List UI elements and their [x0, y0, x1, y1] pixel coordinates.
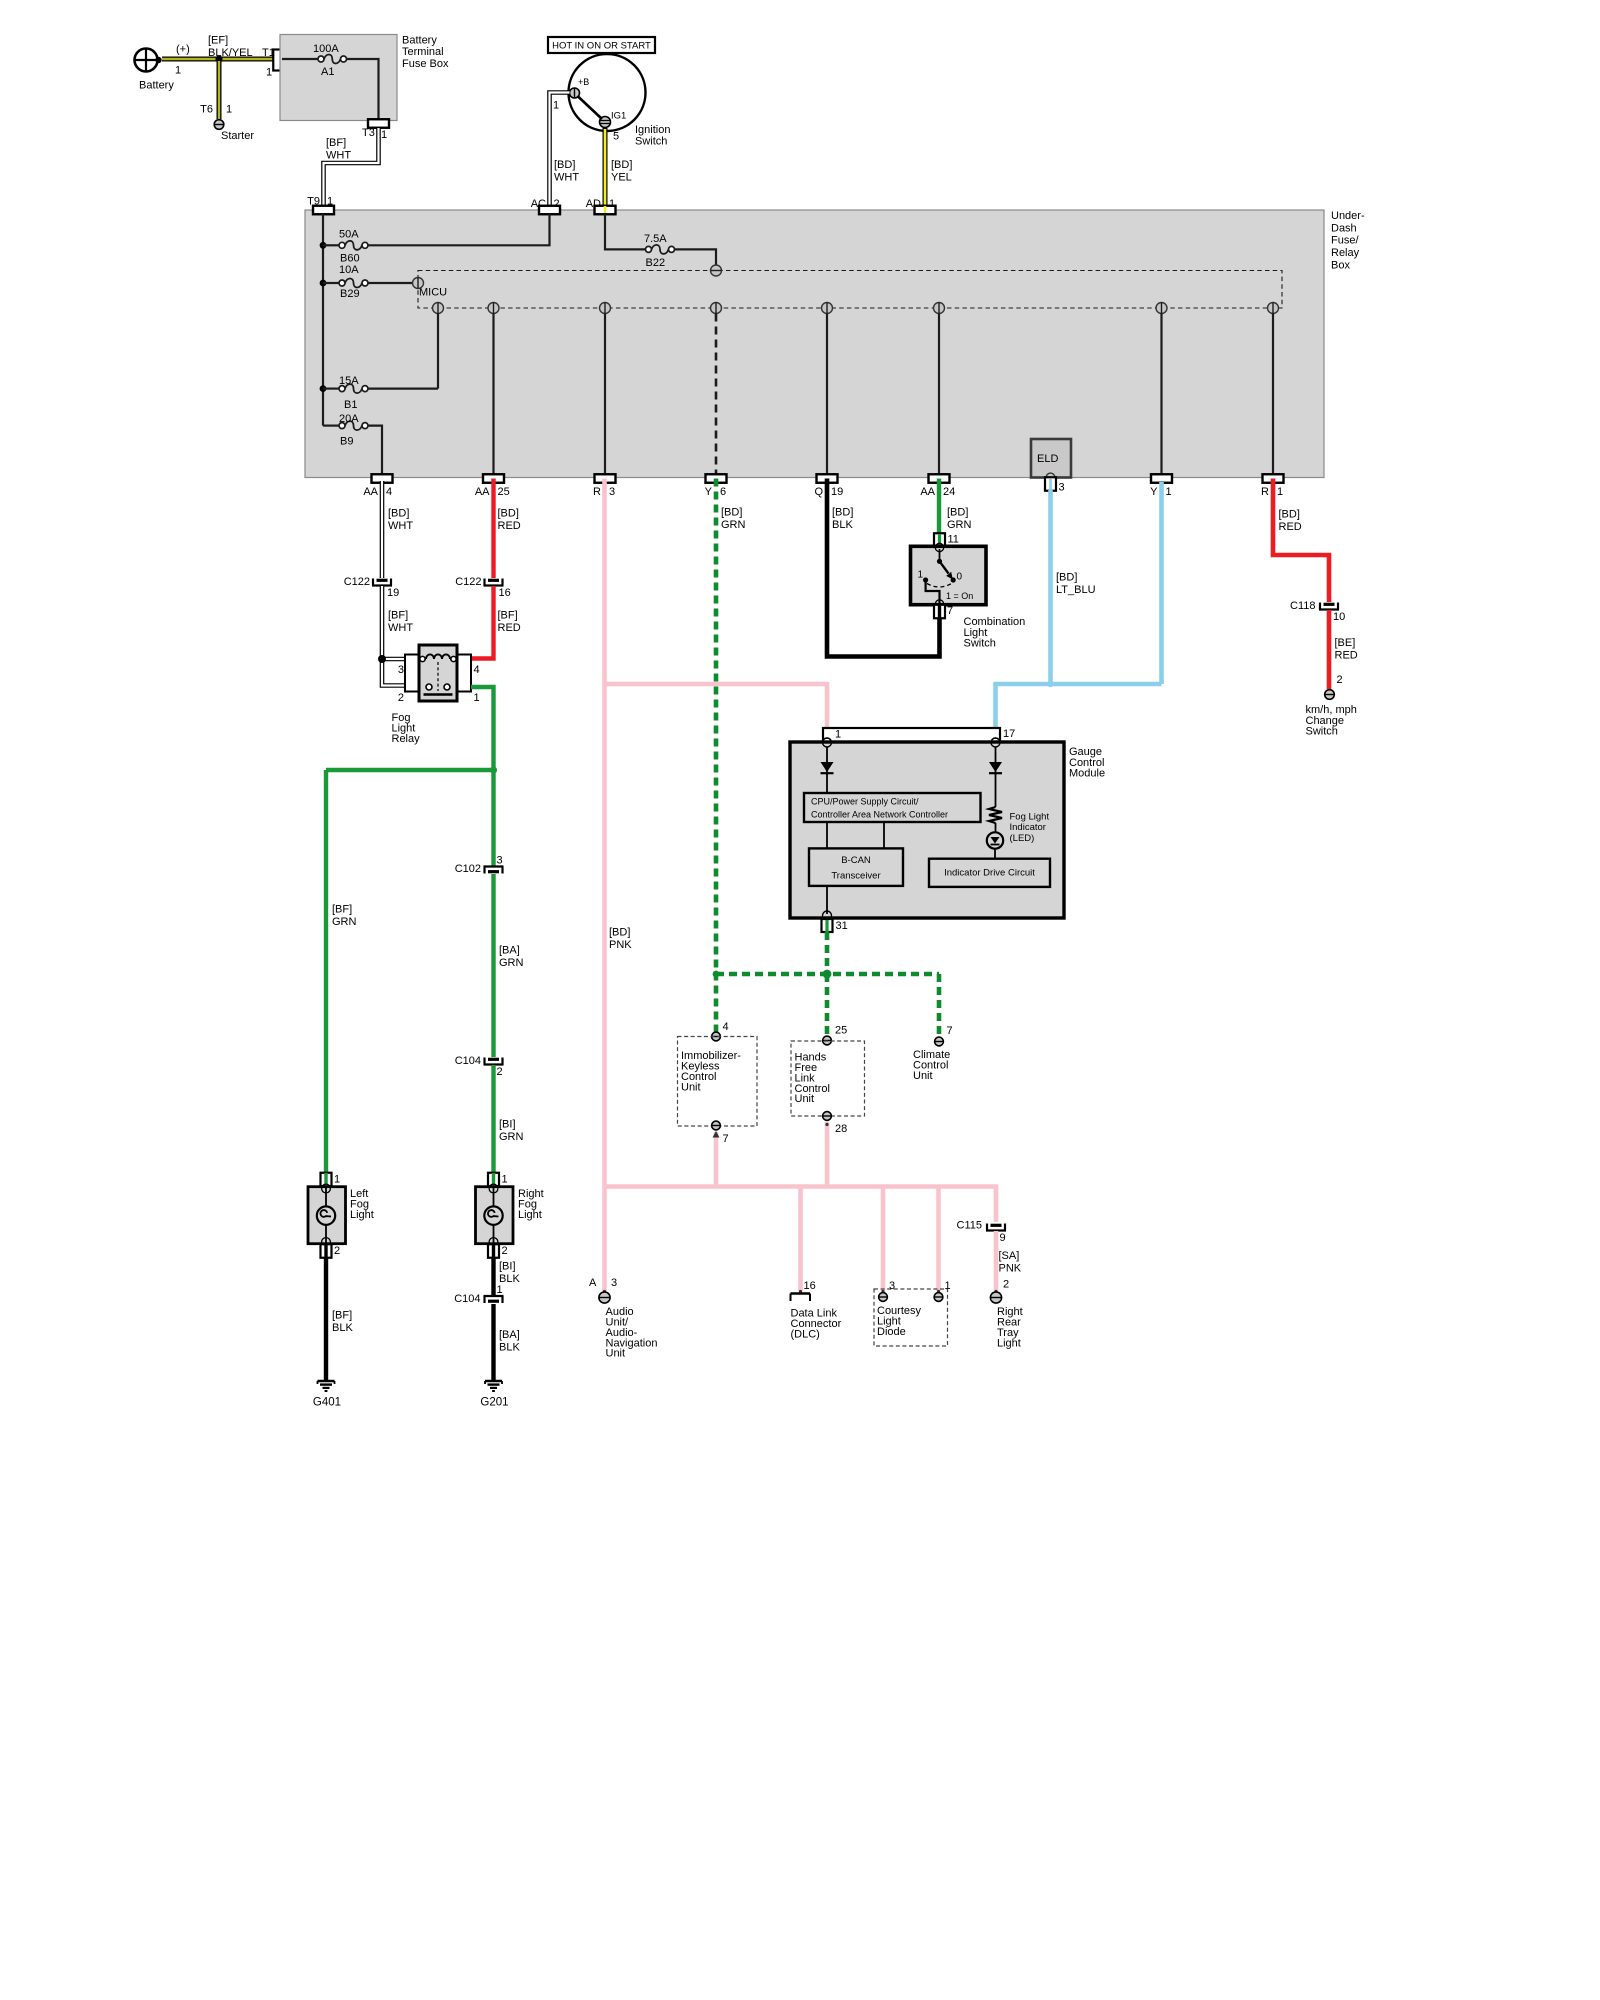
connector T9 pin 1: [313, 206, 334, 215]
label (+) node: [176, 44, 190, 56]
svg-text:1: 1: [609, 198, 615, 210]
label [BI] BLK: [499, 1261, 520, 1286]
label [BF] WHT: [326, 137, 351, 162]
right fog light connector pin 1: [488, 1173, 508, 1187]
svg-text:Relay: Relay: [392, 733, 421, 745]
left fog light connector pin 2: [321, 1244, 341, 1258]
label Right Fog Light: [518, 1188, 544, 1221]
svg-text:2: 2: [1003, 1279, 1009, 1291]
immobilizer pin 4 terminal: [712, 1021, 729, 1041]
connector C122 pin 16: [455, 576, 511, 599]
svg-text:Light: Light: [997, 1337, 1021, 1349]
svg-text:16: 16: [499, 587, 511, 599]
label [BD] LT_BLU: [1056, 572, 1096, 597]
svg-text:Y: Y: [705, 486, 713, 498]
svg-text:1: 1: [266, 67, 272, 79]
label B1: [344, 399, 357, 411]
relay pin number 2: [398, 692, 404, 704]
label T6 1: [200, 104, 232, 116]
ground G401: [313, 1381, 341, 1408]
label [BI] GRN: [499, 1119, 524, 1144]
svg-text:(DLC): (DLC): [791, 1328, 820, 1340]
svg-text:0: 0: [957, 571, 963, 582]
switch pin circle bottom: [935, 600, 943, 608]
svg-text:Unit: Unit: [681, 1081, 701, 1093]
ignition switch circle: [569, 54, 646, 131]
svg-text:15A: 15A: [339, 375, 359, 387]
connector AD pin 1: [586, 198, 616, 214]
gauge control module connector strip: [823, 728, 1000, 742]
svg-text:Unit: Unit: [606, 1348, 626, 1360]
svg-text:GRN: GRN: [721, 519, 746, 531]
svg-text:10: 10: [1333, 611, 1345, 623]
wire Q19 drop: [826, 314, 828, 475]
connector R pin 1: [1261, 474, 1283, 498]
svg-text:[BD]: [BD]: [609, 927, 630, 939]
svg-text:+B: +B: [578, 77, 589, 87]
wire AA25 drop: [492, 314, 494, 475]
svg-text:B9: B9: [340, 436, 353, 448]
label Data Link Connector (DLC): [791, 1308, 842, 1341]
label [BD] GRN: [721, 507, 746, 532]
svg-text:C102: C102: [455, 863, 481, 875]
svg-text:Battery: Battery: [402, 35, 437, 47]
switch internal: pole wire: [939, 549, 941, 561]
svg-text:WHT: WHT: [388, 520, 413, 532]
junction 10A: [320, 280, 327, 287]
svg-text:1 = On: 1 = On: [946, 591, 973, 601]
switch contact 0: [951, 571, 963, 582]
svg-text:(LED): (LED): [1010, 833, 1035, 844]
fog light indicator resistor: [989, 807, 1002, 823]
right fog light internal wire: [493, 1186, 495, 1244]
svg-text:(+): (+): [176, 44, 190, 56]
wire [BD] PNK R3 down: [602, 479, 607, 1187]
ignition switch terminal IG1: [600, 110, 627, 127]
svg-text:50A: 50A: [339, 229, 359, 241]
wire diode to CPU box: [826, 774, 828, 793]
under-dash fuse/relay box: [305, 210, 1324, 478]
wire [BD] WHT +B to AC2: [550, 93, 570, 207]
svg-text:Switch: Switch: [1306, 725, 1338, 737]
svg-text:19: 19: [831, 486, 843, 498]
junction 15A: [320, 385, 327, 392]
svg-text:T1: T1: [262, 47, 275, 59]
wire [BF] BLK to ground: [324, 1257, 328, 1381]
right fog light connector pin 2: [488, 1244, 508, 1258]
starter terminal: [214, 120, 224, 130]
wire pink to audio unit: [602, 1187, 607, 1292]
wire Y1 drop: [1160, 314, 1162, 475]
svg-text:WHT: WHT: [554, 172, 579, 184]
svg-text:Dash: Dash: [1331, 222, 1357, 234]
svg-text:[BF]: [BF]: [332, 904, 352, 916]
fuse B60 50A: [323, 214, 550, 250]
svg-text:R: R: [1261, 486, 1269, 498]
svg-text:[BD]: [BD]: [1056, 572, 1077, 584]
connector AA pin 24: [920, 474, 955, 498]
gauge module connector pin 31: [822, 919, 848, 932]
label Immobilizer-Keyless Control Unit: [681, 1050, 741, 1093]
connector C104 pin 1: [454, 1284, 503, 1305]
svg-text:Relay: Relay: [1331, 247, 1360, 259]
connector Y pin 1: [1150, 474, 1172, 498]
pink branch to gauge module pin 1: [605, 684, 828, 729]
svg-text:2: 2: [334, 1245, 340, 1257]
label [BA] BLK: [499, 1329, 520, 1354]
svg-text:[BD]: [BD]: [1279, 509, 1300, 521]
relay coil: [419, 654, 457, 659]
svg-text:AA: AA: [920, 486, 935, 498]
label Starter: [221, 130, 254, 142]
wire [BD] GRN AA24 to switch pin 11: [937, 479, 941, 547]
svg-text:1: 1: [918, 569, 924, 580]
svg-text:T6: T6: [200, 104, 213, 116]
svg-text:C122: C122: [455, 576, 481, 588]
label Right Rear Tray Light: [997, 1306, 1023, 1349]
wire resistor to LED: [995, 823, 997, 833]
svg-text:AC: AC: [531, 198, 546, 210]
label MICU: [419, 287, 447, 299]
wire [BF] GRN relay pin1 to fog lights: [326, 687, 494, 1173]
label T9 1: [307, 196, 333, 208]
svg-text:1: 1: [226, 104, 232, 116]
label B29: [340, 288, 360, 300]
wire LED to indicator drive circuit: [994, 849, 996, 859]
switch throw arc (dashed): [927, 584, 952, 588]
relay contact bar: [424, 693, 453, 696]
wire [BD] GRN Y6 dashed down: [714, 479, 719, 1033]
wire [EF] BLK/YEL battery to T1: [162, 57, 276, 62]
label [BF] WHT: [388, 610, 413, 635]
svg-text:11: 11: [948, 534, 959, 546]
svg-text:B60: B60: [340, 253, 360, 265]
svg-text:GRN: GRN: [499, 1131, 524, 1143]
MICU bus pin x=493.5: [488, 303, 499, 314]
label 100A: [313, 43, 339, 55]
svg-text:Switch: Switch: [635, 136, 667, 148]
svg-text:3: 3: [609, 486, 615, 498]
HOT IN ON OR START tag: [548, 37, 655, 53]
svg-text:1: 1: [474, 692, 480, 704]
wire [BF] RED C122 to relay pin 4: [471, 586, 494, 659]
label 50A: [339, 229, 359, 241]
km/h mph change switch terminal 2: [1325, 674, 1343, 699]
left fog light internal wire: [325, 1186, 327, 1244]
combination light switch connector pin 7: [934, 605, 953, 619]
svg-text:C115: C115: [957, 1220, 982, 1232]
wire [BD] LT_BLU ELD3 down: [1048, 490, 1053, 684]
label 20A: [339, 413, 359, 425]
fuse B1 15A: [323, 384, 438, 393]
svg-text:Indicator: Indicator: [1010, 822, 1046, 833]
gauge module pin 1: [823, 729, 842, 747]
courtesy light diode box (dashed): [874, 1289, 948, 1346]
svg-text:IG1: IG1: [611, 110, 626, 121]
svg-text:BLK: BLK: [832, 519, 853, 531]
svg-text:Terminal: Terminal: [402, 46, 444, 58]
gauge module pin 31 circle: [823, 911, 832, 920]
svg-text:AA: AA: [475, 486, 490, 498]
MICU bus pin x=605: [600, 303, 611, 314]
svg-text:24: 24: [943, 486, 955, 498]
wire [SA] PNK: [994, 1231, 999, 1291]
wire [BD] GRN pin31 down (dashed): [825, 932, 830, 974]
wire CPU to B-CAN left: [826, 822, 828, 848]
svg-text:1: 1: [334, 1174, 340, 1186]
label [BF] GRN: [332, 904, 357, 929]
label 1 = On: [946, 591, 973, 601]
wire [BF] WHT C122 to relay: [382, 586, 405, 686]
junction green Y6/bus: [713, 971, 720, 978]
wire pink immobilizer pin7 to bus: [713, 1131, 720, 1187]
dashed green bus horizontal: [716, 972, 939, 977]
wire [BA] GRN to C102: [491, 770, 495, 866]
wire T1 to fuse A1: [282, 58, 318, 60]
relay pin number 3: [398, 664, 404, 676]
svg-text:MICU: MICU: [419, 287, 447, 299]
wire BLK/YEL to starter: [217, 59, 222, 119]
svg-text:[BE]: [BE]: [1335, 637, 1356, 649]
switch contact 1 to pin 7 wire: [926, 581, 940, 603]
wire pink to C115: [0, 0, 1, 1]
left fog light pin circles: [322, 1184, 331, 1246]
svg-text:Unit: Unit: [913, 1070, 933, 1082]
label [BD] YEL: [611, 159, 632, 184]
svg-text:WHT: WHT: [388, 622, 413, 634]
label Audio Unit/Audio-Navigation Unit: [606, 1306, 658, 1360]
svg-text:2: 2: [502, 1245, 508, 1257]
svg-text:Box: Box: [1331, 259, 1350, 271]
svg-text:3: 3: [1059, 482, 1065, 494]
ignition switch lever: [578, 96, 603, 119]
label [BD] RED: [498, 508, 521, 533]
MICU bus pin x=827: [822, 303, 833, 314]
audio unit terminal A 3: [589, 1277, 617, 1303]
svg-text:[SA]: [SA]: [999, 1250, 1020, 1262]
MICU left edge pin (10A input): [413, 278, 424, 289]
svg-text:1: 1: [381, 129, 387, 141]
wire dashed green to HFL pin 25: [825, 974, 830, 1036]
internal bus wire from T9: [322, 214, 324, 426]
right fog light bulb: [484, 1206, 502, 1224]
svg-text:10A: 10A: [339, 264, 359, 276]
fuse A1 100A: [318, 55, 347, 64]
svg-text:9: 9: [1000, 1232, 1006, 1244]
courtesy diode pin 3 terminal: [879, 1280, 896, 1301]
svg-text:17: 17: [1003, 728, 1015, 740]
connector C104 pin 2: [455, 1055, 504, 1078]
wire pin17 to diode: [995, 747, 997, 775]
wire [BD] YEL IG1 to AD1: [603, 128, 608, 206]
B-CAN transceiver box: [809, 848, 903, 886]
svg-text:LT_BLU: LT_BLU: [1056, 584, 1096, 596]
fuse B9 20A: [323, 421, 382, 474]
svg-text:3: 3: [497, 855, 503, 867]
label 5 at IG1: [613, 131, 619, 143]
svg-text:[BD]: [BD]: [832, 507, 853, 519]
indicator drive circuit box: [929, 859, 1050, 887]
MICU bus pin x=939: [934, 303, 945, 314]
fog light relay left tab: [405, 655, 419, 692]
battery terminal fuse box: [280, 35, 397, 121]
svg-text:31: 31: [836, 920, 848, 932]
fuse B22 7.5A from AD1: [605, 214, 716, 266]
fog light relay right tab: [457, 655, 471, 692]
label A1: [321, 66, 334, 78]
label Battery Terminal Fuse Box: [402, 35, 449, 70]
junction 50A: [320, 242, 327, 249]
label [BD] WHT: [554, 159, 579, 184]
label B9: [340, 436, 353, 448]
label [BF] BLK: [332, 1310, 353, 1335]
MICU bus pin x=438: [433, 303, 444, 314]
label Gauge Control Module: [1069, 746, 1105, 779]
svg-text:R: R: [593, 486, 601, 498]
svg-text:4: 4: [386, 486, 392, 498]
left fog light body: [308, 1187, 346, 1244]
svg-text:19: 19: [387, 587, 399, 599]
gauge module pin 17: [991, 728, 1015, 747]
svg-text:[BD]: [BD]: [947, 507, 968, 519]
svg-text:G401: G401: [313, 1396, 341, 1408]
gauge control module box: [790, 742, 1064, 918]
svg-text:[BD]: [BD]: [388, 508, 409, 520]
label [BF] RED: [498, 610, 521, 635]
diode D1 (pin 1): [821, 762, 834, 773]
relay pin circles: [420, 656, 456, 690]
svg-text:B22: B22: [646, 257, 666, 269]
svg-text:ELD: ELD: [1037, 453, 1058, 465]
connector AC pin 2: [531, 198, 560, 214]
courtesy diode pin 1 terminal: [934, 1280, 951, 1301]
immobilizer-keyless control unit box (dashed): [678, 1037, 758, 1127]
wire [BE] RED: [1327, 610, 1332, 689]
MICU bus pin x=1161.5: [1156, 303, 1167, 314]
svg-text:CPU/Power Supply Circuit/: CPU/Power Supply Circuit/: [811, 797, 919, 807]
combination light switch box: [911, 546, 987, 604]
switch lever with arrow: [937, 559, 953, 580]
svg-text:GRN: GRN: [947, 519, 972, 531]
wire [BA] GRN C102 to C104: [491, 874, 495, 1057]
svg-text:YEL: YEL: [611, 172, 632, 184]
svg-text:4: 4: [723, 1021, 729, 1033]
svg-text:G201: G201: [480, 1396, 508, 1408]
label 1 at +B wire: [553, 100, 559, 112]
wire CPU to B-CAN right: [883, 822, 885, 848]
svg-text:T3: T3: [362, 127, 375, 139]
svg-text:BLK: BLK: [499, 1342, 520, 1354]
label B60: [340, 253, 360, 265]
svg-text:GRN: GRN: [499, 957, 524, 969]
ELD connector pin 3: [1045, 477, 1065, 493]
light blue junction bus: [996, 681, 1162, 729]
svg-text:[BI]: [BI]: [499, 1119, 516, 1131]
svg-text:HOT IN ON OR START: HOT IN ON OR START: [552, 40, 651, 51]
connector Q pin 19: [814, 474, 843, 498]
label Courtesy Light Diode: [877, 1305, 922, 1338]
right fog light body: [476, 1187, 514, 1244]
wire pink to courtesy diode pin 3: [881, 1187, 886, 1292]
ground G201: [480, 1381, 508, 1408]
label km/h, mph Change Switch: [1306, 704, 1357, 737]
svg-text:AD: AD: [586, 198, 601, 210]
svg-text:4: 4: [474, 664, 480, 676]
label Battery: [139, 80, 174, 92]
wire [BD] BLK Q19 to switch pin 7: [827, 479, 940, 657]
junction green pin31/bus: [823, 970, 832, 979]
svg-text:Starter: Starter: [221, 130, 254, 142]
svg-text:[BD]: [BD]: [554, 159, 575, 171]
left fog light connector pin 1: [321, 1173, 341, 1187]
svg-text:GRN: GRN: [332, 916, 357, 928]
svg-text:RED: RED: [1279, 521, 1302, 533]
label [BD] PNK: [609, 927, 632, 952]
svg-text:7: 7: [947, 605, 953, 617]
hands free link control unit box (dashed): [791, 1041, 865, 1116]
junction relay coil node: [378, 655, 386, 663]
wire pin1 to diode: [826, 747, 828, 775]
svg-text:C122: C122: [344, 576, 370, 588]
connector AA pin 25: [475, 474, 510, 498]
fog light indicator LED: [987, 832, 1003, 848]
svg-text:PNK: PNK: [609, 939, 632, 951]
svg-text:3: 3: [889, 1280, 895, 1292]
wire R1 drop: [1272, 314, 1274, 475]
connector T3 pin 1: [362, 119, 389, 141]
label Under-Dash Fuse/Relay Box: [1331, 210, 1365, 271]
svg-text:BLK: BLK: [332, 1322, 353, 1334]
svg-text:[BD]: [BD]: [611, 159, 632, 171]
wire [BA] BLK to ground: [491, 1304, 495, 1381]
svg-text:PNK: PNK: [999, 1263, 1022, 1275]
svg-text:2: 2: [398, 692, 404, 704]
label [BA] GRN: [499, 945, 524, 970]
wire [BD] RED R1 down: [1273, 479, 1329, 603]
svg-text:Diode: Diode: [877, 1326, 906, 1338]
MICU bus pin x=1273: [1268, 303, 1279, 314]
HFL pin 28 terminal: [823, 1112, 848, 1135]
ELD box: [1031, 439, 1071, 478]
gauge module pin circles on box edge: [823, 738, 1001, 747]
svg-text:25: 25: [498, 486, 510, 498]
svg-text:WHT: WHT: [326, 150, 351, 162]
svg-text:Light: Light: [350, 1209, 374, 1221]
svg-text:1: 1: [502, 1174, 508, 1186]
svg-text:[EF]: [EF]: [208, 35, 228, 47]
wire [BI] BLK: [491, 1257, 495, 1296]
label 15A: [339, 375, 359, 387]
svg-text:3: 3: [398, 664, 404, 676]
svg-text:Y: Y: [1150, 486, 1158, 498]
svg-text:7.5A: 7.5A: [644, 233, 667, 245]
svg-text:Controller Area Network Contro: Controller Area Network Controller: [811, 810, 948, 820]
svg-text:28: 28: [835, 1123, 847, 1135]
svg-text:2: 2: [554, 198, 560, 210]
wire R3 drop: [604, 314, 606, 475]
pink bus horizontal: [605, 1187, 997, 1223]
svg-text:Fuse Box: Fuse Box: [402, 58, 449, 70]
svg-text:20A: 20A: [339, 413, 359, 425]
MICU bus pin x=716: [711, 303, 722, 314]
junction node battery/starter: [215, 55, 222, 62]
svg-text:A1: A1: [321, 66, 334, 78]
svg-text:[BA]: [BA]: [499, 945, 520, 957]
diode D2 (pin 17): [989, 762, 1002, 773]
climate control unit pin 7 terminal: [935, 1025, 953, 1046]
wire pink to courtesy diode pin 1: [936, 1187, 941, 1292]
svg-text:C104: C104: [455, 1055, 481, 1067]
